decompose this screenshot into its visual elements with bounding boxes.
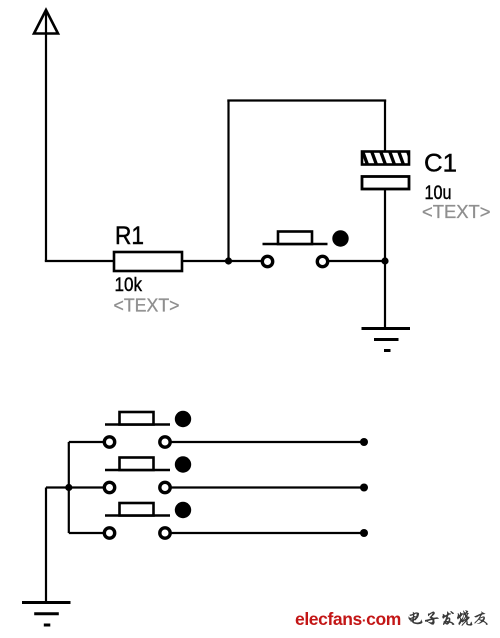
node A junction dot [225, 257, 232, 264]
pushbutton S2 [104, 411, 191, 447]
svg-text:R1: R1 [115, 222, 144, 250]
pushbutton S3 [104, 456, 191, 492]
wire S3 left [46, 486, 103, 488]
logo chinese char 发 [442, 611, 454, 625]
logo chinese char 友 [474, 611, 487, 625]
wire left bus vertical [68, 442, 70, 533]
node C junction dot [65, 484, 72, 491]
wire node A up [227, 101, 229, 262]
svg-text:10k: 10k [115, 275, 143, 296]
ground GND1 [362, 329, 411, 351]
svg-text:<TEXT>: <TEXT> [422, 201, 491, 222]
wire VCC to R1 [45, 260, 114, 262]
logo elecfans.com [295, 609, 401, 630]
wire S2 right [171, 441, 364, 443]
logo chinese char 子 [425, 611, 439, 624]
pushbutton S1 [262, 230, 348, 266]
ground GND2 [22, 603, 71, 626]
logo chinese char 烧 [457, 610, 472, 626]
wire R1 to node A [182, 260, 262, 262]
svg-text:<TEXT>: <TEXT> [114, 295, 180, 316]
wire S4 right [171, 532, 364, 534]
wire C1 to node B [384, 189, 386, 261]
terminal dot S3 [360, 484, 368, 492]
wire S3 right [171, 486, 364, 488]
wire top horizontal [227, 99, 386, 101]
pushbutton S4 [104, 502, 191, 538]
wire down to C1 [384, 101, 386, 153]
svg-text:C1: C1 [424, 150, 457, 178]
logo chinese char 电 [409, 612, 423, 624]
wire bus to ground vertical [45, 488, 47, 603]
power VCC symbol [34, 10, 58, 34]
resistor R1 [114, 252, 182, 271]
wire S1 to node B [329, 260, 386, 262]
wire S2 left [69, 441, 103, 443]
capacitor C1 [362, 151, 413, 190]
node B junction dot [381, 257, 388, 264]
terminal dot S4 [360, 529, 368, 537]
wire VCC vertical [45, 34, 47, 262]
wire S4 left [69, 532, 103, 534]
wire node B down to ground [384, 261, 386, 328]
terminal dot S2 [360, 438, 368, 446]
